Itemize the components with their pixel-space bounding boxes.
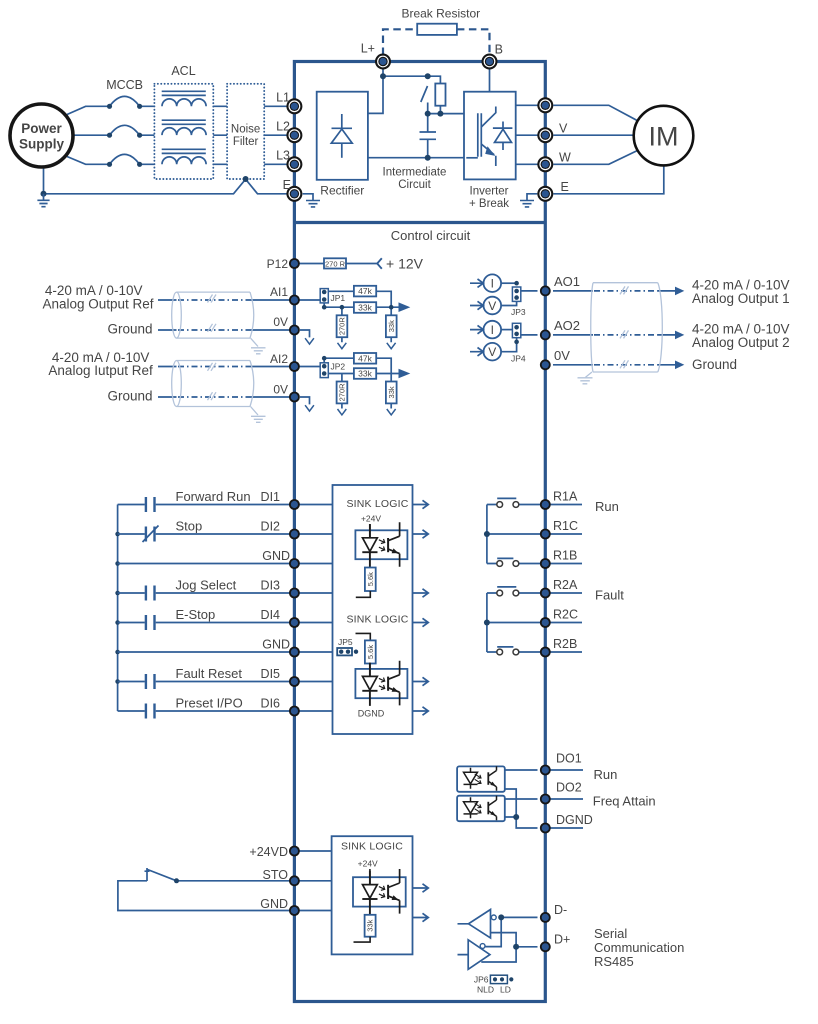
svg-text:Run: Run xyxy=(594,767,618,782)
svg-text:DI1: DI1 xyxy=(261,490,281,504)
svg-text:Power: Power xyxy=(21,121,62,136)
svg-text:Break Resistor: Break Resistor xyxy=(401,7,480,21)
svg-text:Intermediate: Intermediate xyxy=(383,167,447,179)
svg-text:33k: 33k xyxy=(366,919,375,931)
svg-text:33k: 33k xyxy=(358,369,372,379)
svg-text:I: I xyxy=(491,277,494,291)
svg-text:R1B: R1B xyxy=(553,549,577,563)
svg-text:Analog Iutput Ref: Analog Iutput Ref xyxy=(48,363,153,378)
svg-text:W: W xyxy=(559,151,571,165)
svg-text:AI2: AI2 xyxy=(270,352,288,366)
svg-text:DI6: DI6 xyxy=(261,697,281,711)
svg-text:P12: P12 xyxy=(267,257,289,271)
svg-text:Communication: Communication xyxy=(594,940,684,955)
svg-text:AO2: AO2 xyxy=(554,318,580,333)
svg-text:E: E xyxy=(561,180,569,194)
svg-text:Fault Reset: Fault Reset xyxy=(176,666,243,681)
svg-text:DO2: DO2 xyxy=(556,781,582,795)
svg-text:V: V xyxy=(488,299,496,313)
svg-text:V: V xyxy=(488,345,496,359)
svg-text:JP6: JP6 xyxy=(474,975,489,985)
svg-text:33k: 33k xyxy=(387,320,396,332)
svg-text:DI4: DI4 xyxy=(261,608,281,622)
svg-text:5.6k: 5.6k xyxy=(366,572,375,586)
svg-text:Preset I/PO: Preset I/PO xyxy=(176,696,243,711)
svg-text:L3: L3 xyxy=(276,149,290,163)
svg-text:R1C: R1C xyxy=(553,519,578,533)
svg-text:E: E xyxy=(283,178,291,192)
svg-text:Inverter: Inverter xyxy=(470,186,509,198)
svg-text:270R: 270R xyxy=(338,383,347,402)
svg-text:IM: IM xyxy=(649,121,679,151)
svg-text:DI5: DI5 xyxy=(261,667,281,681)
svg-text:DO1: DO1 xyxy=(556,752,582,766)
svg-text:Supply: Supply xyxy=(19,137,64,152)
svg-text:Ground: Ground xyxy=(107,322,152,337)
svg-text:RS485: RS485 xyxy=(594,954,634,969)
svg-text:Stop: Stop xyxy=(176,519,203,534)
svg-text:LD: LD xyxy=(500,985,511,995)
svg-text:D-: D- xyxy=(554,903,567,917)
svg-text:SINK LOGIC: SINK LOGIC xyxy=(346,614,408,626)
svg-text:Forward Run: Forward Run xyxy=(176,489,251,504)
svg-text:4-20 mA / 0-10V: 4-20 mA / 0-10V xyxy=(45,283,143,298)
svg-text:270 R: 270 R xyxy=(325,259,346,268)
svg-text:JP1: JP1 xyxy=(331,293,346,303)
svg-text:DI2: DI2 xyxy=(261,520,281,534)
svg-text:+ Break: + Break xyxy=(469,198,509,210)
svg-text:R1A: R1A xyxy=(553,490,578,504)
svg-text:SINK LOGIC: SINK LOGIC xyxy=(341,841,403,853)
svg-text:GND: GND xyxy=(262,638,290,652)
svg-text:GND: GND xyxy=(262,549,290,563)
svg-text:Serial: Serial xyxy=(594,926,627,941)
svg-text:NLD: NLD xyxy=(477,985,494,995)
svg-text:STO: STO xyxy=(263,868,289,882)
svg-text:R2B: R2B xyxy=(553,637,577,651)
svg-text:ACL: ACL xyxy=(171,64,195,78)
svg-text:33k: 33k xyxy=(387,386,396,398)
svg-text:0V: 0V xyxy=(273,382,288,396)
svg-text:Analog Output 2: Analog Output 2 xyxy=(692,335,790,350)
svg-text:47k: 47k xyxy=(358,353,372,363)
svg-text:L+: L+ xyxy=(361,42,375,56)
svg-text:0V: 0V xyxy=(273,315,288,329)
svg-text:Ground: Ground xyxy=(107,389,152,404)
svg-text:Fault: Fault xyxy=(595,588,624,603)
svg-text:AI1: AI1 xyxy=(270,285,288,299)
svg-text:GND: GND xyxy=(260,897,288,911)
svg-text:33k: 33k xyxy=(358,303,372,313)
svg-text:D+: D+ xyxy=(554,933,570,947)
svg-text:270R: 270R xyxy=(338,317,347,336)
svg-text:JP3: JP3 xyxy=(511,307,526,317)
svg-text:0V: 0V xyxy=(554,348,570,363)
svg-text:R2C: R2C xyxy=(553,608,578,622)
svg-text:E-Stop: E-Stop xyxy=(176,607,216,622)
svg-text:DGND: DGND xyxy=(358,709,385,719)
svg-text:Freq Attain: Freq Attain xyxy=(593,794,656,809)
svg-text:Circuit: Circuit xyxy=(398,179,431,191)
svg-text:Noise: Noise xyxy=(231,124,260,136)
svg-text:L2: L2 xyxy=(276,120,290,134)
svg-text:L1: L1 xyxy=(276,91,290,105)
svg-text:JP4: JP4 xyxy=(511,353,526,363)
svg-text:5.6k: 5.6k xyxy=(366,645,375,659)
svg-text:Control circuit: Control circuit xyxy=(391,228,471,243)
svg-text:Filter: Filter xyxy=(233,136,259,148)
svg-text:V: V xyxy=(559,122,568,136)
svg-text:+ 12V: + 12V xyxy=(386,256,424,272)
svg-text:+24V: +24V xyxy=(358,859,378,869)
svg-text:Analog Output 1: Analog Output 1 xyxy=(692,291,790,306)
svg-text:B: B xyxy=(495,43,503,57)
svg-text:Ground: Ground xyxy=(692,357,737,372)
svg-text:47k: 47k xyxy=(358,286,372,296)
svg-text:DI3: DI3 xyxy=(261,579,281,593)
svg-text:R2A: R2A xyxy=(553,578,578,592)
svg-text:DGND: DGND xyxy=(556,813,593,827)
svg-text:Rectifier: Rectifier xyxy=(320,184,364,198)
svg-text:JP2: JP2 xyxy=(331,362,346,372)
svg-text:MCCB: MCCB xyxy=(106,78,143,92)
svg-text:Jog Select: Jog Select xyxy=(176,578,237,593)
svg-text:Run: Run xyxy=(595,499,619,514)
svg-text:SINK LOGIC: SINK LOGIC xyxy=(346,498,408,510)
svg-text:I: I xyxy=(491,323,494,337)
svg-text:+24V: +24V xyxy=(361,514,381,524)
svg-text:AO1: AO1 xyxy=(554,274,580,289)
svg-text:Analog Output Ref: Analog Output Ref xyxy=(42,297,153,312)
svg-text:+24VD: +24VD xyxy=(249,845,288,859)
svg-text:JP5: JP5 xyxy=(338,637,353,647)
